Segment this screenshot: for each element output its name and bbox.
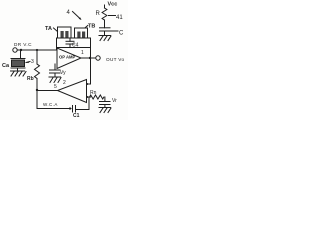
svg-text:TB: TB: [88, 24, 95, 30]
svg-text:5: 5: [54, 84, 57, 90]
svg-text:1: 1: [81, 50, 84, 56]
svg-text:W.C.A: W.C.A: [43, 102, 58, 107]
svg-text:DR V.C: DR V.C: [14, 42, 32, 47]
svg-text:R: R: [96, 11, 101, 17]
svg-text:TA: TA: [45, 26, 52, 32]
svg-text:OP AMP: OP AMP: [59, 55, 75, 60]
svg-text:Vy: Vy: [60, 70, 66, 76]
svg-text:C: C: [119, 31, 124, 37]
svg-text:OUT Vo: OUT Vo: [106, 57, 124, 62]
svg-text:Rb: Rb: [27, 76, 34, 82]
svg-text:Vcc: Vcc: [108, 2, 118, 8]
svg-text:Rn: Rn: [90, 90, 97, 96]
svg-text:C1: C1: [73, 113, 80, 119]
svg-text:Ca: Ca: [2, 63, 10, 69]
svg-text:41: 41: [116, 15, 123, 21]
svg-text:C4: C4: [72, 43, 79, 49]
svg-text:2: 2: [63, 80, 66, 86]
svg-text:3: 3: [31, 59, 34, 65]
svg-text:Vr: Vr: [112, 98, 117, 104]
